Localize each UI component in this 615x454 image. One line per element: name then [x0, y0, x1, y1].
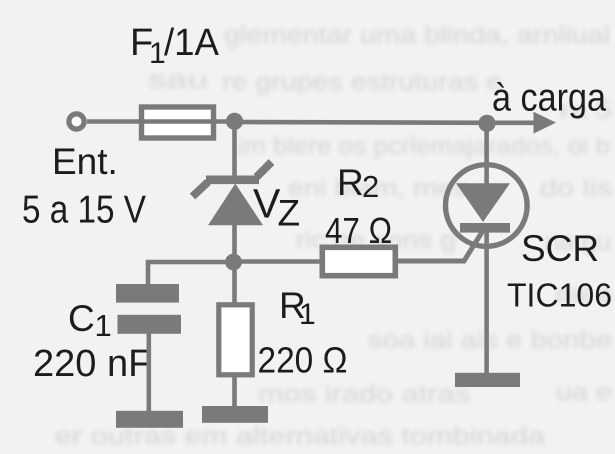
svg-text:sau: sau — [148, 67, 208, 94]
capacitor C1 — [116, 284, 181, 334]
svg-text:220 nF: 220 nF — [33, 343, 151, 385]
svg-text:im blere os pcrlemajarados, oi: im blere os pcrlemajarados, oi b — [238, 133, 610, 160]
svg-text:5 a 15 V: 5 a 15 V — [22, 189, 146, 232]
wire: zener anode down to main node — [232, 224, 237, 262]
svg-text:ua e: ua e — [556, 379, 612, 406]
terminal: input terminal Ent. — [69, 114, 84, 129]
wire: top junction down to zener cathode — [232, 122, 237, 179]
svg-text:R: R — [337, 162, 364, 203]
node: junction fuse / zener / output rail — [226, 113, 243, 130]
SCR TIC106 — [446, 165, 528, 247]
wire: top rail junction to SCR anode junction — [235, 120, 488, 125]
wire: R2 to SCR gate — [398, 224, 487, 261]
svg-text:re grupes estruturas e: re grupes estruturas e — [222, 69, 502, 96]
node: main junction (zener / C1 / R1 / R2) — [225, 254, 242, 271]
ground: R1 — [202, 406, 268, 423]
wire: SCR cathode to ground — [484, 232, 489, 374]
svg-text:C: C — [68, 298, 95, 339]
wire: main node to R2 — [234, 259, 321, 264]
fuse F1 — [141, 107, 217, 138]
wire: output arrow to load (à carga) — [487, 112, 556, 134]
svg-text:do lis: do lis — [540, 175, 612, 202]
svg-text:220 Ω: 220 Ω — [258, 340, 348, 381]
wire: SCR junction down to anode — [484, 123, 489, 184]
ground: C1 — [116, 411, 183, 428]
svg-text:mos irado atras: mos irado atras — [258, 381, 470, 408]
resistor R2 — [322, 247, 395, 275]
svg-text:SCR: SCR — [521, 228, 599, 269]
ground: SCR cathode — [455, 373, 520, 387]
wire: fuse to top junction — [217, 119, 236, 124]
wire: R1 to ground — [232, 374, 237, 407]
svg-text:2: 2 — [362, 169, 379, 204]
svg-text:Ent.: Ent. — [52, 141, 118, 182]
node: junction above SCR anode — [478, 115, 495, 132]
wire: terminal to fuse — [87, 119, 141, 124]
svg-text:à carga: à carga — [492, 77, 606, 120]
svg-text:47 Ω: 47 Ω — [325, 210, 392, 251]
svg-text:TIC106: TIC106 — [507, 277, 612, 314]
svg-text:glementar uma blinda, arnliual: glementar uma blinda, arnliual — [224, 22, 610, 49]
svg-text:1: 1 — [95, 308, 112, 343]
wire: main node to R1 — [232, 262, 237, 304]
svg-text:/1A: /1A — [164, 22, 220, 64]
svg-text:Z: Z — [278, 193, 301, 234]
wire: main node to C1 — [148, 262, 234, 286]
resistor R1 — [219, 305, 252, 375]
svg-text:soa iai ais e bonbe: soa iai ais e bonbe — [368, 327, 612, 354]
wire: C1 to ground — [147, 333, 152, 412]
svg-text:1: 1 — [299, 298, 316, 331]
zener diode VZ — [193, 162, 272, 225]
